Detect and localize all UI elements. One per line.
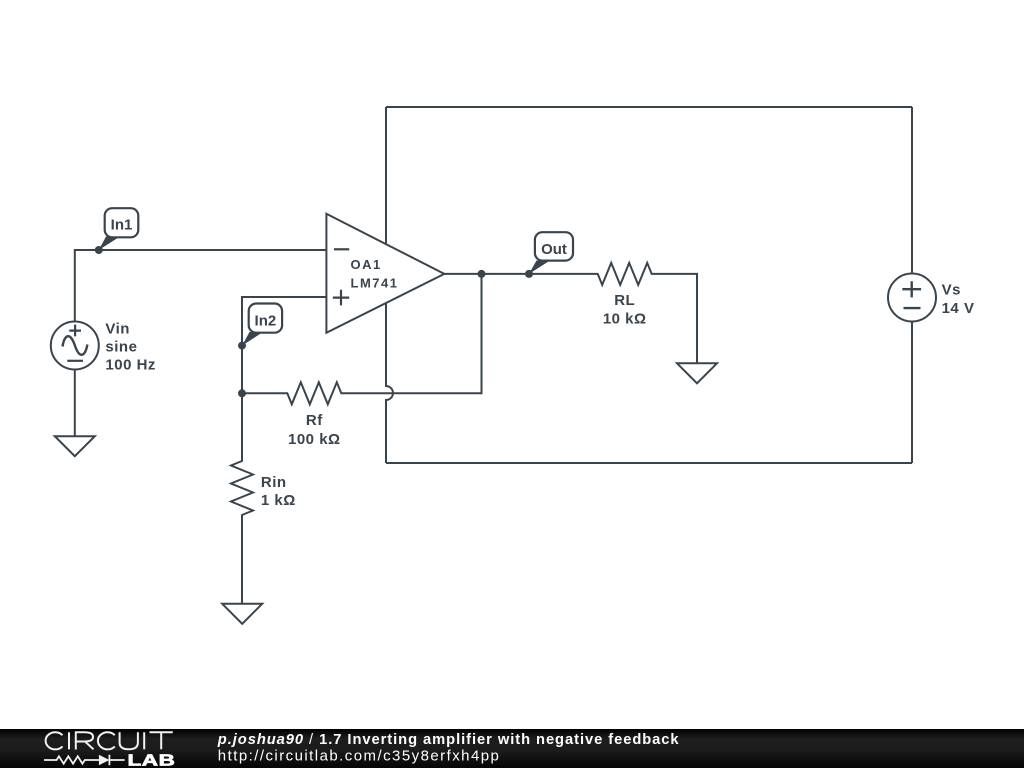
svg-text:1 kΩ: 1 kΩ	[261, 492, 296, 509]
svg-text:100 Hz: 100 Hz	[105, 357, 156, 374]
svg-text:14 V: 14 V	[942, 300, 975, 317]
svg-text:LM741: LM741	[351, 276, 399, 291]
svg-text:Vs: Vs	[942, 282, 961, 299]
svg-text:10 kΩ: 10 kΩ	[603, 311, 647, 328]
svg-text:In2: In2	[255, 313, 277, 330]
svg-text:Out: Out	[541, 241, 567, 258]
svg-text:Vin: Vin	[105, 321, 130, 338]
svg-text:LAB: LAB	[128, 753, 176, 768]
svg-text:In1: In1	[111, 217, 133, 234]
svg-text:sine: sine	[105, 339, 137, 356]
svg-text:Rin: Rin	[261, 474, 287, 491]
svg-text:OA1: OA1	[351, 257, 382, 272]
svg-text:Rf: Rf	[306, 412, 323, 429]
svg-text:p.joshua90 / 1.7 Inverting amp: p.joshua90 / 1.7 Inverting amplifier wit…	[217, 732, 680, 748]
svg-text:100 kΩ: 100 kΩ	[288, 431, 341, 448]
svg-text:RL: RL	[614, 292, 635, 309]
svg-text:http://circuitlab.com/c35y8erf: http://circuitlab.com/c35y8erfxh4pp	[218, 748, 501, 765]
